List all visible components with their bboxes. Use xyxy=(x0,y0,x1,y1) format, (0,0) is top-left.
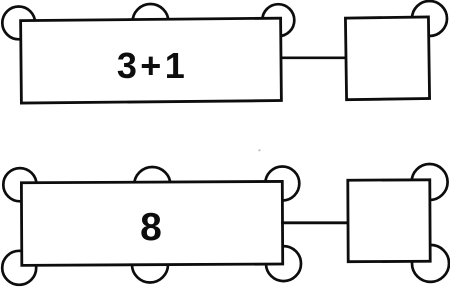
wheel W12 (bottom-right of trailer B) xyxy=(412,245,449,282)
wagon B body xyxy=(21,181,282,265)
trailer B body xyxy=(348,180,430,262)
wheel W11 (top-right of trailer B) xyxy=(412,164,448,200)
wheel W1 (top-left of wagon A) xyxy=(2,7,35,40)
coupling wire B xyxy=(281,221,350,224)
svg-text:3+1: 3+1 xyxy=(117,45,188,86)
svg-text:8: 8 xyxy=(140,206,162,249)
wheel W2 (top-middle of wagon A) xyxy=(133,4,169,40)
wagon A body xyxy=(21,18,282,103)
coupling wire A xyxy=(280,56,348,59)
wheel W8 (bottom-middle of wagon B) xyxy=(132,247,168,283)
trailer A body xyxy=(345,17,429,100)
wheel W5 (top-left of wagon B) xyxy=(3,168,36,201)
wheel W9 (top-right of wagon B) xyxy=(265,167,299,201)
wheel W10 (bottom-right of wagon B) xyxy=(266,246,301,281)
wheel W7 (top-middle of wagon B) xyxy=(134,167,170,203)
wheel W6 (bottom-left of wagon B) xyxy=(2,251,36,285)
wheel W4 (top-right of trailer A) xyxy=(412,1,447,36)
wheel W3 (top-right of wagon A) xyxy=(262,4,294,36)
scan speck xyxy=(258,149,260,151)
